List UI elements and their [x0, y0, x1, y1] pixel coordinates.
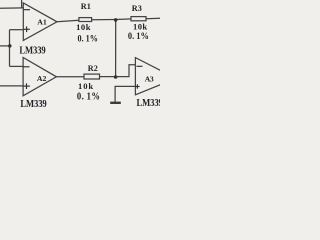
wire A2 inverting input: [10, 65, 24, 67]
svg-text:10k: 10k: [78, 81, 94, 91]
wire node to A3 inverting input: [116, 65, 136, 77]
svg-text:R2: R2: [88, 64, 98, 73]
wire A1 output to R1: [57, 20, 79, 22]
wire reference branch to top edge: [21, 0, 23, 8]
svg-text:0. 1%: 0. 1%: [128, 30, 149, 41]
svg-text:R3: R3: [132, 4, 142, 13]
wire stub from left edge to node: [0, 45, 10, 47]
svg-text:0. 1%: 0. 1%: [77, 92, 100, 103]
node junction dot left bus: [8, 44, 12, 48]
wire A3 non-inverting input to ground: [115, 86, 135, 102]
op-amp A2: [23, 58, 56, 96]
svg-text:A3: A3: [145, 75, 154, 84]
A1 plus sign: [24, 28, 30, 30]
wire R3 to right edge: [146, 17, 160, 19]
wire junction vertical: [115, 20, 117, 77]
wire A2 non-inverting input from left edge: [0, 85, 23, 87]
wire A1 non-inverting input: [10, 29, 24, 31]
A2 plus sign: [23, 85, 30, 87]
A1 minus sign: [24, 9, 31, 11]
resistor R2: [84, 74, 100, 79]
svg-text:LM339: LM339: [20, 100, 47, 110]
wire left vertical bus: [9, 30, 11, 67]
wire A1 inverting input from left edge: [0, 7, 23, 9]
svg-text:0. 1%: 0. 1%: [78, 33, 99, 44]
op-amp A3: [135, 58, 176, 95]
svg-text:R1: R1: [81, 2, 91, 11]
wire A2 output to R2: [56, 76, 84, 78]
svg-text:10k: 10k: [76, 22, 91, 32]
wire node to R3: [116, 18, 131, 21]
wire R2 to node: [100, 76, 116, 78]
op-amp A1: [23, 3, 57, 41]
svg-text:A2: A2: [37, 74, 47, 83]
node junction dot R1-R3: [114, 18, 118, 22]
resistor R3: [131, 17, 146, 21]
svg-text:LM339: LM339: [137, 98, 161, 109]
node junction dot R2 line: [114, 75, 118, 79]
svg-text:A1: A1: [37, 17, 47, 26]
A2 minus sign: [23, 66, 30, 68]
wire R1 to node: [92, 19, 116, 21]
ground: [110, 102, 121, 104]
A3 plus sign: [135, 86, 139, 88]
resistor R1: [79, 18, 92, 22]
A3 minus sign: [137, 65, 143, 67]
svg-text:LM339: LM339: [19, 46, 46, 57]
